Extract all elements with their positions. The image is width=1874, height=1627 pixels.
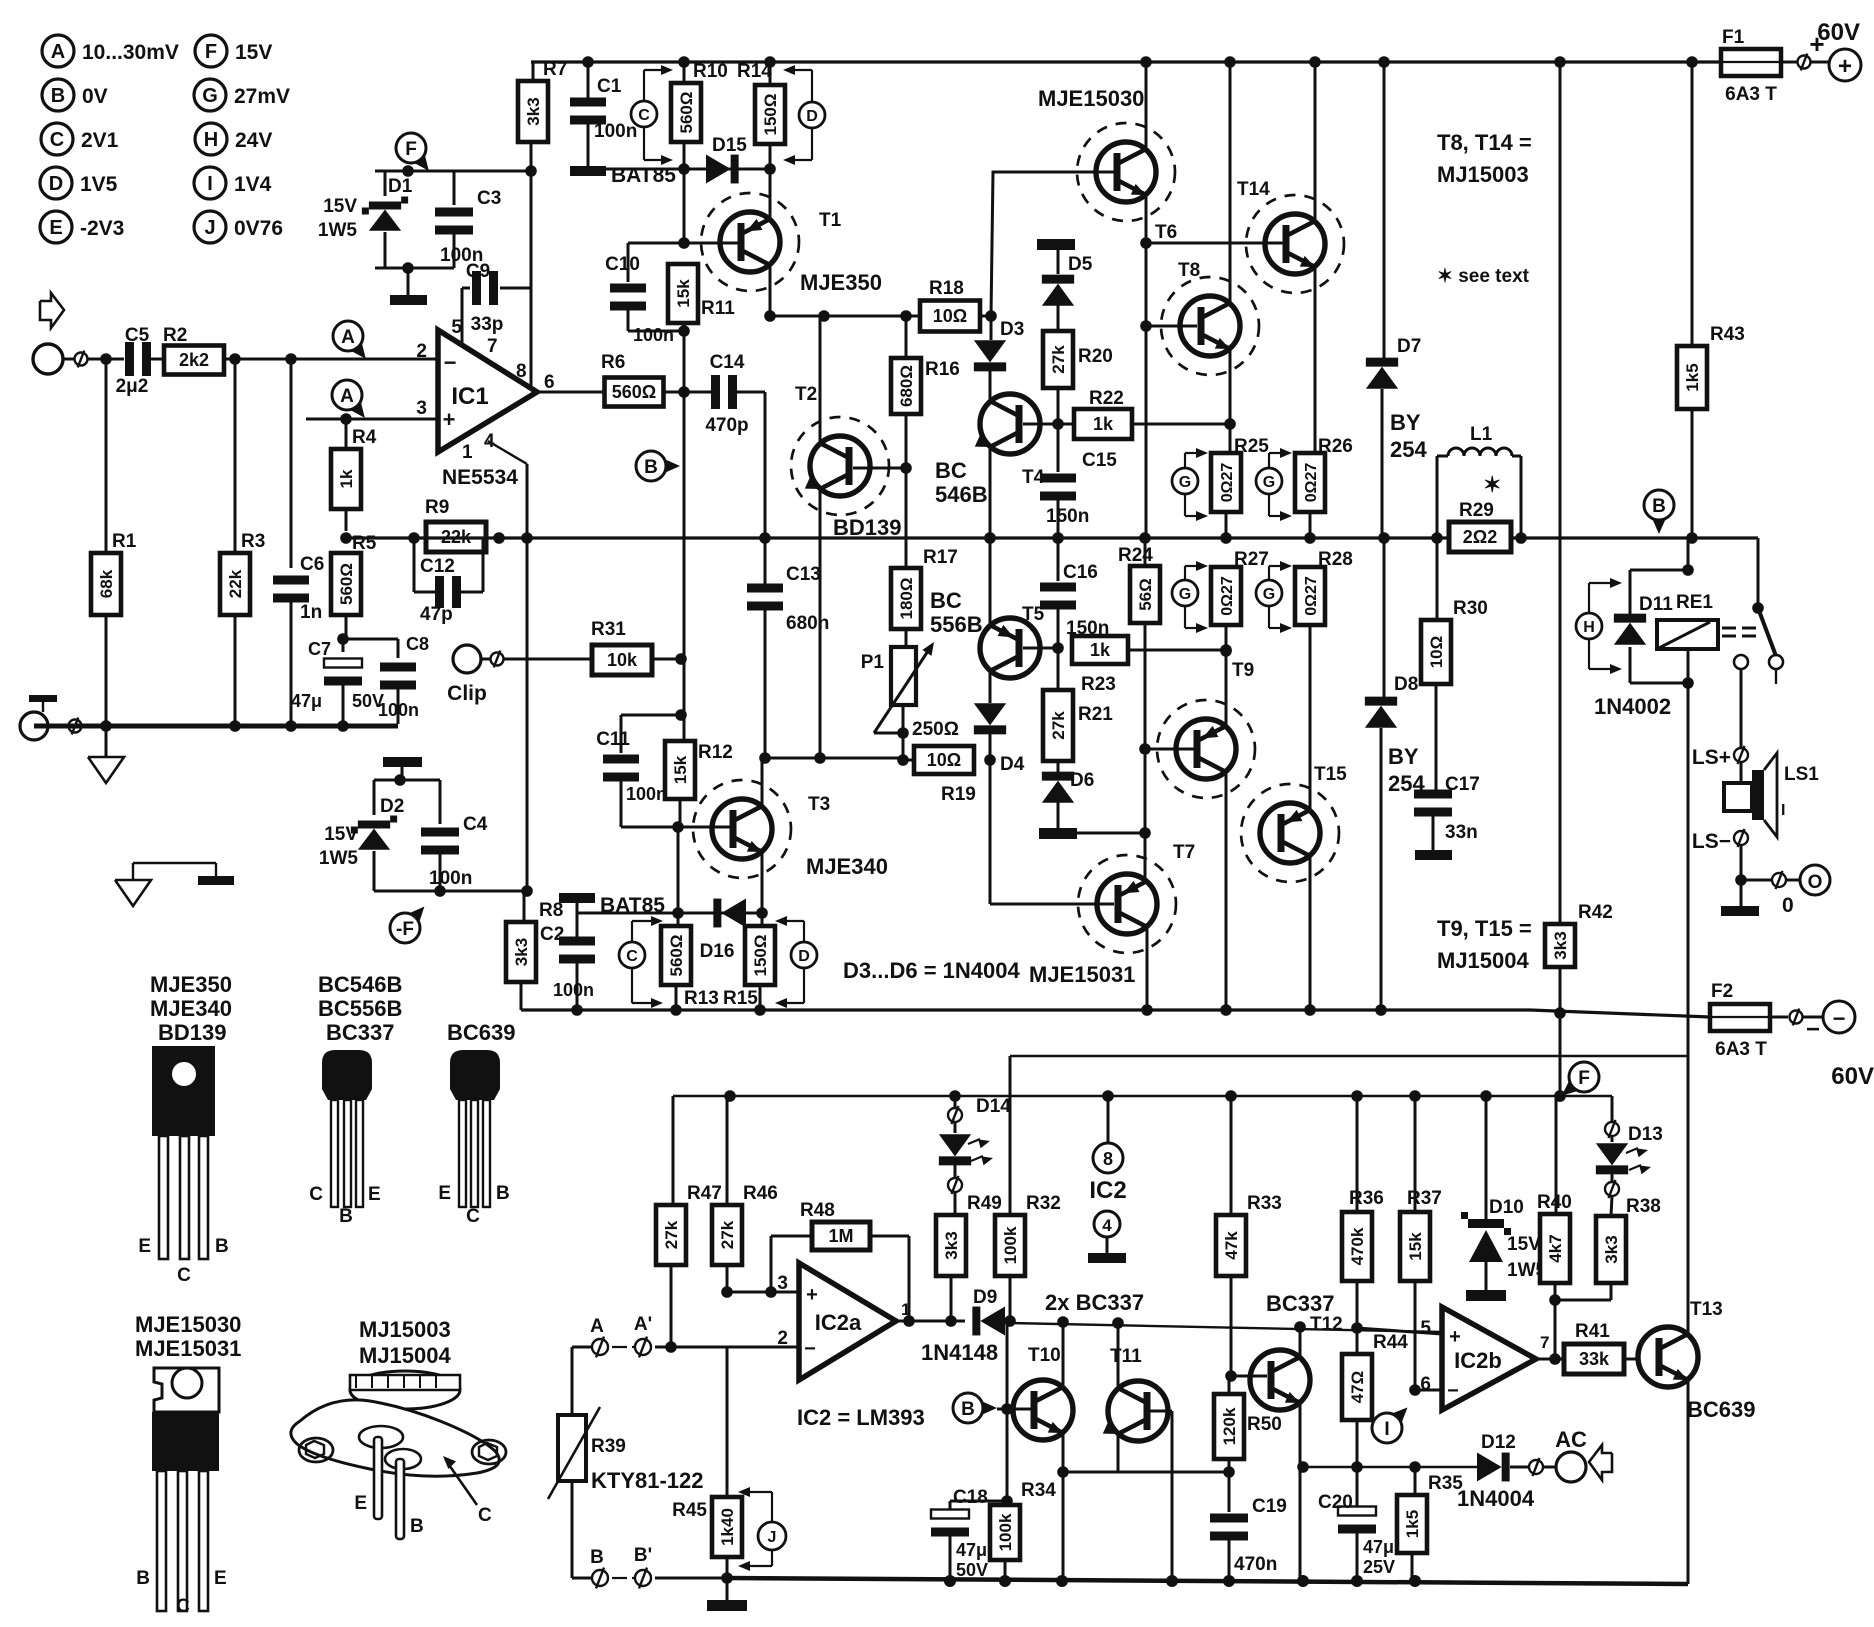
svg-text:150Ω: 150Ω <box>751 935 770 977</box>
LED D13 <box>1605 1122 1619 1136</box>
IC2a pin3 wire <box>727 1291 799 1294</box>
wire +60V top rail <box>531 60 1721 63</box>
svg-text:33p: 33p <box>471 314 504 335</box>
svg-text:−: − <box>804 1338 816 1360</box>
svg-text:T8: T8 <box>1178 260 1200 281</box>
svg-text:MJE15031: MJE15031 <box>135 1336 241 1361</box>
resistor R41 33k <box>1564 1344 1624 1374</box>
svg-text:4k7: 4k7 <box>1546 1234 1565 1262</box>
T4 emitter wire <box>989 447 992 538</box>
ground stub below D1/C3 <box>375 267 454 270</box>
svg-text:60V: 60V <box>1817 19 1860 46</box>
capacitor C16 150n <box>1040 583 1076 592</box>
transistor T15 MJ15004 pnp <box>1260 803 1320 863</box>
svg-text:D7: D7 <box>1397 336 1421 357</box>
svg-text:C: C <box>626 948 638 965</box>
svg-text:100k: 100k <box>1001 1226 1020 1264</box>
diode D11 1N4002 <box>1629 570 1632 614</box>
svg-text:-2V3: -2V3 <box>80 217 124 240</box>
svg-text:C8: C8 <box>406 634 429 654</box>
svg-text:C: C <box>478 1505 492 1526</box>
T14 base row <box>1146 242 1283 245</box>
svg-text:R41: R41 <box>1575 1321 1610 1342</box>
svg-text:27k: 27k <box>662 1220 681 1249</box>
output row 2xBC337 <box>1010 1323 1442 1332</box>
svg-text:LS1: LS1 <box>1784 764 1819 785</box>
svg-text:15V: 15V <box>324 824 358 845</box>
resistor R29 2.2 <box>1449 522 1511 552</box>
ground triangle <box>105 731 108 757</box>
pointer A to pin3 wire <box>349 400 365 418</box>
svg-text:R1: R1 <box>112 531 137 552</box>
svg-text:1k: 1k <box>1093 414 1114 434</box>
svg-text:T6: T6 <box>1155 222 1177 243</box>
resistor R48 1M <box>727 1291 771 1294</box>
T2 base wire <box>853 467 906 470</box>
meas C bracket R13 <box>619 942 645 968</box>
svg-text:R3: R3 <box>241 531 265 552</box>
svg-text:C11: C11 <box>596 729 630 750</box>
transistor T3 MJE340 npn <box>672 821 684 833</box>
svg-text:R27: R27 <box>1234 549 1269 570</box>
svg-text:B: B <box>339 1206 353 1227</box>
wire D15 row <box>588 168 770 171</box>
IC2b pin6 wire <box>1415 1389 1442 1392</box>
resistor R22 1k <box>1052 418 1064 430</box>
svg-text:E: E <box>354 1493 367 1514</box>
svg-text:C18: C18 <box>953 1487 988 1508</box>
svg-text:T14: T14 <box>1237 179 1270 200</box>
svg-text:1k40: 1k40 <box>718 1508 737 1546</box>
resistor R11 15k <box>668 264 698 323</box>
resistor R15 150 <box>761 913 764 926</box>
svg-text:C: C <box>177 1265 191 1286</box>
svg-text:R49: R49 <box>967 1193 1002 1214</box>
svg-text:✶: ✶ <box>1483 472 1501 497</box>
meas H bracket D11 <box>1576 613 1602 639</box>
svg-text:I: I <box>1781 802 1785 819</box>
svg-text:27mV: 27mV <box>234 85 290 108</box>
svg-text:R20: R20 <box>1078 346 1113 367</box>
ground bar speaker <box>1740 880 1743 906</box>
svg-text:R13: R13 <box>684 988 719 1009</box>
LS- terminal <box>1734 831 1748 845</box>
zener D1 15V <box>384 171 387 196</box>
LS+ terminal <box>1740 669 1743 748</box>
meas D bracket R14 <box>799 102 825 128</box>
svg-text:B: B <box>1652 496 1666 517</box>
D12 row <box>1303 1466 1477 1468</box>
clip terminal <box>453 645 481 673</box>
svg-text:B: B <box>51 85 65 107</box>
svg-text:A': A' <box>634 1314 652 1335</box>
relay coil feed <box>1687 538 1690 570</box>
svg-text:R38: R38 <box>1626 1196 1661 1217</box>
svg-text:15k: 15k <box>671 755 690 784</box>
svg-text:BC: BC <box>930 588 962 613</box>
capacitor C6 1n <box>290 359 293 568</box>
row T3-collector/T2-emitter <box>765 757 900 760</box>
pointer I <box>1390 1407 1407 1424</box>
resistor R26 0.27 <box>1309 453 1312 538</box>
svg-text:R26: R26 <box>1318 436 1353 457</box>
bias spine wire <box>683 392 686 741</box>
svg-text:0Ω27: 0Ω27 <box>1303 463 1320 503</box>
svg-text:546B: 546B <box>935 482 988 507</box>
svg-text:B: B <box>136 1568 150 1589</box>
svg-text:27k: 27k <box>718 1220 737 1249</box>
svg-text:BC639: BC639 <box>447 1020 515 1045</box>
svg-text:560Ω: 560Ω <box>337 563 356 605</box>
relay RE1 coil <box>1657 620 1718 649</box>
svg-text:R48: R48 <box>800 1200 835 1221</box>
capacitor C2 100n <box>559 893 595 903</box>
wire output row <box>346 536 1758 539</box>
svg-text:25V: 25V <box>1363 1557 1395 1577</box>
pointer B output <box>1652 517 1667 534</box>
capacitor C17 33n <box>1414 790 1452 799</box>
T14 collector to rail <box>1314 62 1317 221</box>
svg-text:BD139: BD139 <box>158 1020 226 1045</box>
transistor T14 MJ15003 npn <box>1265 214 1325 274</box>
svg-text:R47: R47 <box>687 1183 722 1204</box>
svg-text:+: + <box>1838 53 1852 80</box>
svg-text:560Ω: 560Ω <box>667 935 686 977</box>
svg-text:R15: R15 <box>723 988 758 1009</box>
svg-text:D8: D8 <box>1394 674 1418 695</box>
svg-text:T9: T9 <box>1232 660 1254 681</box>
svg-text:MJE340: MJE340 <box>150 996 232 1021</box>
op-amp IC1 NE5534 <box>438 330 537 452</box>
svg-text:T2: T2 <box>795 384 817 405</box>
LED D14 <box>954 1096 957 1108</box>
svg-text:100n: 100n <box>440 245 483 266</box>
svg-text:1: 1 <box>462 442 473 463</box>
capacitor C8 100n <box>343 638 398 641</box>
terminal -60V <box>1823 1001 1855 1033</box>
wire T1 collector row <box>770 315 920 318</box>
transistor T7 MJE15031 pnp <box>1097 874 1157 934</box>
svg-text:R23: R23 <box>1081 674 1116 695</box>
svg-text:MJE340: MJE340 <box>806 854 888 879</box>
svg-text:1M: 1M <box>828 1226 853 1246</box>
connector -60V <box>1790 1011 1803 1024</box>
svg-text:BC556B: BC556B <box>318 996 402 1021</box>
resistor R12 15k <box>675 709 687 721</box>
resistor R43 1k5 <box>1691 62 1694 346</box>
svg-text:F: F <box>205 41 217 63</box>
T3 collector row <box>764 392 767 588</box>
P1 bottom wire <box>902 705 905 760</box>
resistor R6 560 <box>605 378 664 407</box>
transistor T8 MJ15003 npn <box>1180 296 1240 356</box>
capacitor C14 470p <box>711 375 720 409</box>
resistor R27 0.27 <box>1211 567 1241 625</box>
svg-text:150Ω: 150Ω <box>761 94 780 136</box>
resistor R40 4k7 <box>1555 1096 1558 1214</box>
T11 emitter join <box>1117 1434 1120 1472</box>
pointer A to pin2 wire <box>350 341 366 359</box>
svg-text:B: B <box>590 1547 604 1568</box>
op-amp IC2b <box>1442 1307 1536 1410</box>
svg-text:6A3 T: 6A3 T <box>1715 1039 1767 1060</box>
resistor R23 1k <box>1072 636 1128 664</box>
svg-text:BC546B: BC546B <box>318 972 402 997</box>
potentiometer P1 250 <box>891 647 916 705</box>
wire to T6 base node <box>991 172 1114 316</box>
svg-text:BY: BY <box>1388 744 1419 769</box>
capacitor C4 100n <box>439 780 442 824</box>
svg-text:R43: R43 <box>1710 324 1745 345</box>
package TO-220 drawing <box>154 1368 219 1412</box>
wire output to relay <box>1757 538 1760 608</box>
T8 base row <box>1145 243 1148 538</box>
legend measurement-point voltages <box>42 35 74 67</box>
svg-text:10...30mV: 10...30mV <box>82 41 179 64</box>
pointer -F <box>408 906 425 924</box>
transistor T9 MJ15004 pnp <box>1145 748 1194 751</box>
svg-text:8: 8 <box>516 361 527 382</box>
svg-text:1V4: 1V4 <box>234 173 272 196</box>
diode D12 1N4004 <box>1477 1453 1502 1482</box>
svg-text:1W5: 1W5 <box>318 220 358 241</box>
svg-text:7: 7 <box>487 336 498 357</box>
thermistor R39 KTY81-122 <box>558 1415 586 1481</box>
capacitor C20 47u 25V <box>1356 1467 1359 1507</box>
resistor R14 150 <box>769 62 772 85</box>
svg-text:2Ω2: 2Ω2 <box>1463 527 1497 547</box>
diode D6 <box>1042 781 1074 803</box>
package TO-92 BC337 drawing <box>322 1050 372 1100</box>
resistor R49 3k3 <box>936 1215 966 1276</box>
svg-text:C14: C14 <box>710 352 745 373</box>
resistor R2 2k2 <box>164 346 224 375</box>
resistor R5 560 <box>340 532 352 544</box>
T10 emitter <box>1062 1433 1065 1581</box>
svg-text:1k5: 1k5 <box>1683 363 1702 391</box>
svg-text:R24: R24 <box>1118 545 1153 566</box>
svg-text:RE1: RE1 <box>1676 592 1713 613</box>
svg-text:470p: 470p <box>705 415 748 436</box>
svg-text:D12: D12 <box>1481 1432 1516 1453</box>
svg-text:MJE15031: MJE15031 <box>1029 962 1135 987</box>
T8 emitter down <box>1229 349 1232 453</box>
T5 emitter wire <box>989 538 992 625</box>
svg-text:BY: BY <box>1390 410 1421 435</box>
svg-text:D15: D15 <box>712 135 747 156</box>
svg-text:D16: D16 <box>700 941 735 962</box>
svg-text:MJ15004: MJ15004 <box>359 1343 452 1368</box>
svg-text:MJ15003: MJ15003 <box>1437 162 1529 187</box>
diode D8 BY254 <box>1383 538 1386 697</box>
svg-text:F2: F2 <box>1711 981 1733 1002</box>
connector to +60V <box>1798 56 1811 69</box>
svg-text:68k: 68k <box>97 569 116 598</box>
fuse F2 <box>1710 1004 1770 1031</box>
capacitor C19 470n <box>1228 1472 1231 1512</box>
svg-text:47μ: 47μ <box>291 691 322 711</box>
svg-text:100k: 100k <box>996 1513 1015 1551</box>
transistor T12 BC337 <box>1231 1375 1267 1378</box>
svg-text:8: 8 <box>1103 1149 1113 1169</box>
svg-text:P1: P1 <box>861 652 885 673</box>
svg-text:R42: R42 <box>1578 902 1613 923</box>
resistor R3 22k <box>234 359 237 553</box>
zener D10 15V 1W5 <box>1485 1096 1488 1219</box>
svg-text:G: G <box>1263 474 1275 491</box>
lower input jack <box>20 712 48 740</box>
svg-text:NE5534: NE5534 <box>442 466 518 489</box>
svg-text:R18: R18 <box>929 278 964 299</box>
svg-text:1N4148: 1N4148 <box>921 1340 998 1365</box>
wire -60V rail <box>1530 1010 1710 1017</box>
svg-text:47k: 47k <box>1222 1231 1241 1260</box>
svg-text:T11: T11 <box>1110 1346 1142 1367</box>
svg-text:C15: C15 <box>1082 450 1117 471</box>
svg-text:R45: R45 <box>672 1500 707 1521</box>
svg-text:E: E <box>438 1183 451 1204</box>
capacitor C9 33p <box>461 288 464 344</box>
relay dashes <box>1722 627 1736 630</box>
T1 emitter wire <box>769 169 772 219</box>
svg-text:0V: 0V <box>82 85 108 108</box>
svg-text:15V: 15V <box>235 41 272 64</box>
speaker LS1 <box>1740 762 1743 783</box>
meas D bracket R15 <box>791 942 817 968</box>
svg-text:R29: R29 <box>1459 500 1494 521</box>
svg-text:T15: T15 <box>1314 764 1347 785</box>
svg-text:R9: R9 <box>425 497 449 518</box>
svg-text:G: G <box>1179 586 1191 603</box>
resistor R38 3k3 <box>1596 1216 1626 1283</box>
transistor T4 BC546B npn <box>980 394 1040 454</box>
svg-text:2: 2 <box>416 341 427 362</box>
T7 collector wire <box>1146 927 1149 1010</box>
svg-text:D: D <box>806 108 818 125</box>
wire R40 to IC2b out <box>1554 1300 1557 1360</box>
capacitor C15 150n <box>1040 474 1076 483</box>
svg-text:R19: R19 <box>941 784 976 805</box>
svg-text:F1: F1 <box>1722 27 1745 48</box>
svg-text:I: I <box>1384 1419 1389 1440</box>
svg-text:6A3 T: 6A3 T <box>1725 84 1777 105</box>
svg-text:1k: 1k <box>1090 640 1111 660</box>
svg-text:T3: T3 <box>808 794 830 815</box>
svg-text:D5: D5 <box>1068 254 1093 275</box>
svg-text:T8, T14 =: T8, T14 = <box>1437 130 1532 155</box>
capacitor C10 100n <box>628 242 684 245</box>
fuse F1 <box>1721 49 1781 76</box>
svg-text:C: C <box>309 1184 323 1205</box>
svg-text:R2: R2 <box>163 325 187 346</box>
T4 base wire <box>1023 423 1058 426</box>
inductor L1 <box>1436 456 1439 538</box>
svg-text:F: F <box>1578 1068 1590 1089</box>
resistor R50 120k <box>1214 1394 1244 1459</box>
svg-text:O: O <box>1808 872 1823 893</box>
svg-text:R39: R39 <box>591 1436 626 1457</box>
resistor R28 0.27 <box>1295 567 1325 625</box>
svg-text:15V: 15V <box>323 196 357 217</box>
resistor R33 47k <box>1230 1096 1233 1215</box>
capacitor C5 2u2 <box>125 342 134 376</box>
svg-text:J: J <box>204 217 215 239</box>
svg-text:D: D <box>49 173 63 195</box>
svg-text:C2: C2 <box>540 924 564 945</box>
resistor R21 27k <box>1057 650 1060 690</box>
svg-text:120k: 120k <box>1220 1407 1239 1445</box>
svg-text:3k3: 3k3 <box>1602 1235 1621 1263</box>
svg-text:10Ω: 10Ω <box>927 750 961 770</box>
0V terminal <box>1741 879 1772 882</box>
svg-text:+: + <box>806 1284 818 1306</box>
svg-text:R34: R34 <box>1021 1480 1056 1501</box>
svg-text:10Ω: 10Ω <box>1427 636 1446 669</box>
svg-text:0: 0 <box>1782 894 1794 917</box>
svg-text:R25: R25 <box>1234 436 1269 457</box>
svg-text:D1: D1 <box>388 176 413 197</box>
T2 collector wire <box>819 316 822 443</box>
svg-text:R7: R7 <box>543 59 567 80</box>
svg-text:27k: 27k <box>1049 711 1068 740</box>
svg-text:D13: D13 <box>1628 1124 1663 1145</box>
svg-text:1n: 1n <box>300 602 322 623</box>
transistor T11 BC337 <box>1108 1381 1168 1441</box>
package TO-3 drawing <box>350 1371 460 1409</box>
T1 collector wire <box>769 265 772 316</box>
resistor R45 1k40 <box>726 1347 729 1497</box>
svg-text:R8: R8 <box>539 900 563 921</box>
svg-text:680n: 680n <box>786 613 829 634</box>
meas G bracket R28 <box>1256 580 1282 606</box>
svg-text:G: G <box>202 85 218 107</box>
svg-text:3k3: 3k3 <box>512 938 531 966</box>
resistor R20 27k <box>1043 331 1073 388</box>
svg-text:R40: R40 <box>1537 1192 1572 1213</box>
svg-text:3: 3 <box>416 398 427 419</box>
svg-text:6: 6 <box>544 372 555 393</box>
capacitor C11 100n <box>621 714 681 717</box>
svg-text:556B: 556B <box>930 612 983 637</box>
svg-text:MJ15004: MJ15004 <box>1437 948 1530 973</box>
svg-text:3k3: 3k3 <box>1551 931 1570 959</box>
diode D7 BY254 <box>1383 62 1386 358</box>
svg-text:5: 5 <box>1420 1318 1431 1339</box>
T7 base wire from D4 node <box>989 760 992 904</box>
rail corner to D13 <box>1611 1096 1614 1122</box>
svg-text:R16: R16 <box>925 359 960 380</box>
svg-text:C: C <box>50 129 64 151</box>
svg-text:BD139: BD139 <box>833 515 901 540</box>
svg-text:27k: 27k <box>1049 345 1068 374</box>
svg-text:1V5: 1V5 <box>80 173 118 196</box>
T2 emitter wire <box>819 489 822 758</box>
svg-text:MJE15030: MJE15030 <box>1038 86 1144 111</box>
svg-text:LS−: LS− <box>1692 830 1731 853</box>
svg-text:15k: 15k <box>1406 1232 1425 1261</box>
T13 emitter <box>1687 1380 1690 1584</box>
transistor T5 BC556B pnp <box>980 618 1040 678</box>
svg-text:KTY81-122: KTY81-122 <box>591 1468 704 1493</box>
svg-text:R28: R28 <box>1318 549 1353 570</box>
svg-text:0Ω27: 0Ω27 <box>1303 576 1320 616</box>
svg-text:560Ω: 560Ω <box>612 382 656 402</box>
svg-text:E: E <box>214 1568 227 1589</box>
capacitor C13 680n <box>747 584 783 593</box>
T8 collector to rail <box>1229 62 1232 303</box>
op-amp IC2a <box>799 1263 896 1380</box>
svg-text:7: 7 <box>1540 1333 1549 1352</box>
